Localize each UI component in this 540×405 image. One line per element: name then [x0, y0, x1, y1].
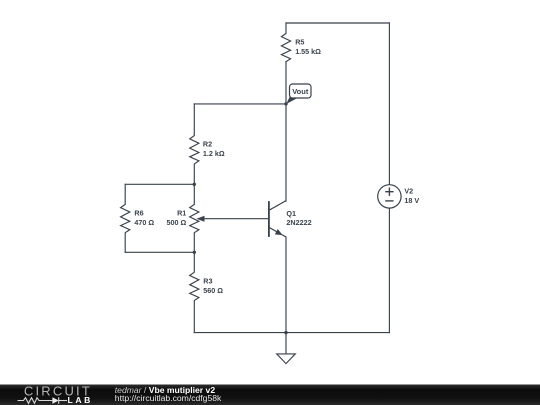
wire bottom rail [194, 332, 389, 334]
svg-text:500 Ω: 500 Ω [167, 218, 187, 227]
node junction dot (emitter/ground/bottom rail) [284, 331, 287, 334]
svg-text:R6: R6 [134, 208, 143, 217]
svg-text:R1: R1 [177, 208, 186, 217]
wire R6 top link [125, 183, 194, 185]
ground [277, 354, 296, 364]
wire R6 bottom link [125, 251, 194, 253]
wire right rail lower (from V2 -) [388, 208, 390, 333]
wire emitter riser (Q1 emitter to bottom rail) [285, 237, 287, 333]
svg-text:1.2 kΩ: 1.2 kΩ [203, 149, 225, 158]
label R3 value [203, 276, 223, 295]
voltage source V2 [378, 185, 401, 208]
node junction dot (R2/R6/R1 top) [193, 183, 196, 186]
label R5 value [295, 37, 321, 56]
svg-text:R3: R3 [203, 276, 212, 285]
svg-text:LAB: LAB [68, 395, 93, 405]
wire collector riser (R5 to Q1 collector) [285, 62, 287, 201]
resistor R5 [281, 23, 290, 62]
svg-text:2N2222: 2N2222 [286, 218, 311, 227]
potentiometer R1 [190, 184, 199, 252]
svg-text:470 Ω: 470 Ω [134, 218, 154, 227]
node Vout flag [286, 84, 311, 104]
svg-text:Vout: Vout [292, 87, 309, 96]
svg-text:Q1: Q1 [286, 209, 296, 218]
resistor R3 [190, 252, 199, 332]
svg-text:R5: R5 [295, 37, 304, 46]
CircuitLab logo resistor-diode squiggle [18, 397, 68, 404]
transistor Q1 [269, 201, 286, 237]
wire ground stub [285, 333, 287, 354]
wire right rail upper (to V2 +) [388, 23, 390, 185]
label R2 value [203, 140, 225, 159]
node junction dot (Vout net) [284, 102, 287, 105]
svg-text:18 V: 18 V [404, 196, 419, 205]
resistor R6 [121, 184, 130, 252]
label V2 value [404, 186, 419, 204]
svg-text:1.55 kΩ: 1.55 kΩ [295, 47, 321, 56]
svg-text:V2: V2 [404, 186, 413, 195]
resistor R2 [190, 104, 199, 184]
svg-text:R2: R2 [203, 140, 212, 149]
node junction dot (R1/R6/R3 bottom) [193, 251, 196, 254]
svg-text:560 Ω: 560 Ω [203, 286, 223, 295]
label R1 value [167, 208, 187, 227]
wire Vout horizontal [194, 103, 286, 105]
wire base (R1 wiper to Q1 base) [204, 218, 269, 220]
R1 wiper arrowhead [197, 216, 205, 222]
label R6 value [134, 208, 154, 227]
label Q1 value [286, 209, 311, 227]
wire top rail [286, 22, 389, 24]
svg-text:http://circuitlab.com/cdfg58k: http://circuitlab.com/cdfg58k [115, 393, 222, 403]
